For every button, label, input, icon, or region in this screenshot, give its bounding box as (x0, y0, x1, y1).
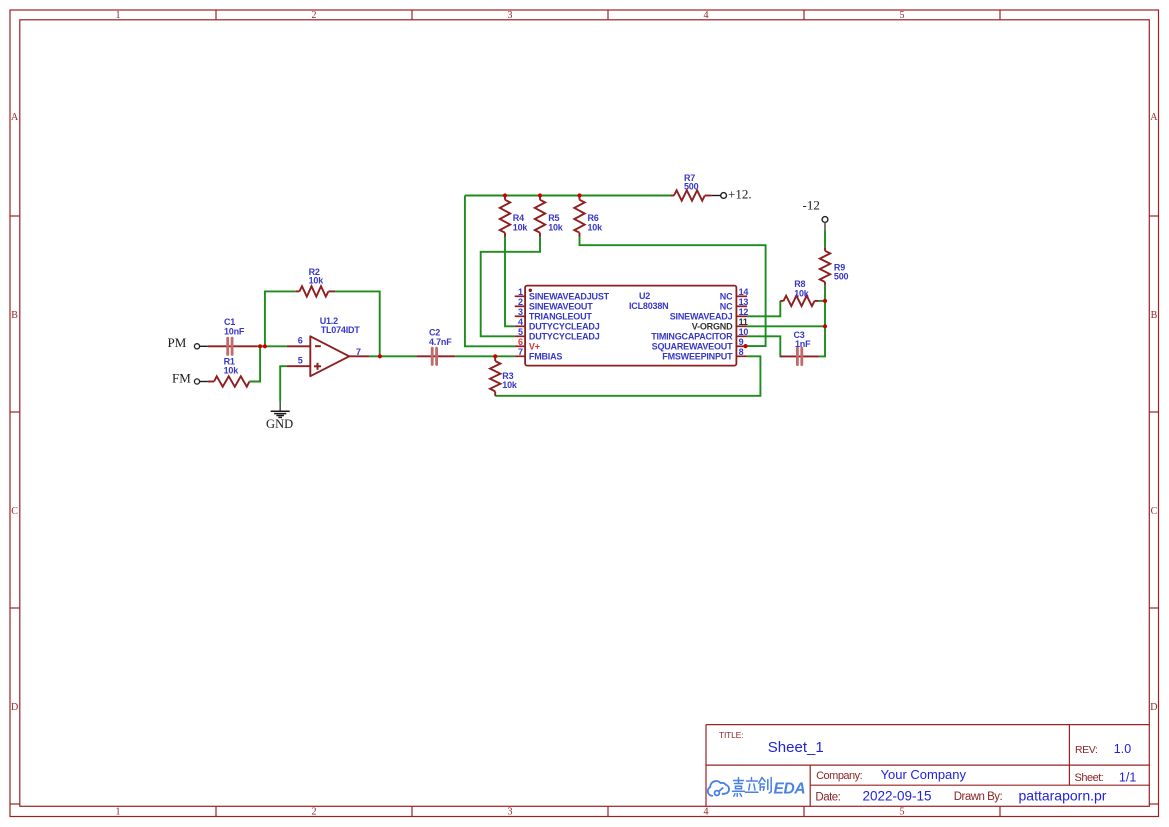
svg-text:10k: 10k (513, 223, 529, 233)
svg-text:Your Company: Your Company (881, 767, 967, 782)
svg-text:10k: 10k (548, 223, 564, 233)
svg-text:EDA: EDA (774, 781, 806, 798)
svg-text:Sheet_1: Sheet_1 (768, 739, 824, 756)
svg-text:Company:: Company: (816, 770, 863, 782)
svg-text:10k: 10k (224, 365, 240, 375)
svg-text:DUTYCYCLEADJ: DUTYCYCLEADJ (529, 332, 600, 342)
svg-text:R5: R5 (548, 213, 559, 223)
svg-text:4: 4 (704, 807, 709, 818)
svg-text:TITLE:: TITLE: (719, 730, 743, 740)
svg-text:500: 500 (834, 271, 849, 281)
svg-text:10nF: 10nF (224, 327, 245, 337)
svg-text:DUTYCYCLEADJ: DUTYCYCLEADJ (529, 322, 600, 332)
svg-text:A: A (11, 112, 19, 123)
svg-text:2022-09-15: 2022-09-15 (863, 788, 932, 803)
svg-text:1nF: 1nF (795, 339, 811, 349)
svg-text:REV:: REV: (1075, 744, 1098, 756)
svg-text:10k: 10k (309, 276, 325, 286)
svg-text:1: 1 (518, 287, 523, 297)
svg-text:7: 7 (518, 347, 523, 357)
svg-text:+12.: +12. (728, 186, 752, 201)
svg-text:D: D (11, 702, 18, 713)
svg-text:V-ORGND: V-ORGND (692, 322, 733, 332)
svg-text:SINEWAVEOUT: SINEWAVEOUT (529, 302, 593, 312)
svg-text:2: 2 (312, 807, 317, 818)
svg-text:6: 6 (298, 336, 303, 346)
svg-text:10k: 10k (502, 380, 518, 390)
svg-text:1.0: 1.0 (1114, 742, 1131, 756)
svg-text:FM: FM (172, 370, 191, 385)
svg-text:ICL8038N: ICL8038N (629, 301, 668, 311)
svg-text:B: B (1151, 310, 1158, 321)
svg-text:3: 3 (518, 307, 523, 317)
svg-text:TRIANGLEOUT: TRIANGLEOUT (529, 312, 592, 322)
svg-text:3: 3 (508, 807, 513, 818)
svg-text:1: 1 (116, 10, 121, 21)
svg-text:9: 9 (739, 337, 744, 347)
svg-text:500: 500 (684, 182, 699, 192)
svg-text:5: 5 (518, 327, 523, 337)
svg-text:Sheet:: Sheet: (1075, 772, 1104, 784)
svg-text:4: 4 (704, 10, 709, 21)
svg-text:-12: -12 (803, 197, 820, 212)
svg-text:pattaraporn.pr: pattaraporn.pr (1019, 787, 1107, 803)
svg-text:FMSWEEPINPUT: FMSWEEPINPUT (662, 352, 733, 362)
svg-text:1: 1 (116, 807, 121, 818)
svg-text:2: 2 (312, 10, 317, 21)
svg-text:5: 5 (298, 356, 303, 366)
svg-text:10k: 10k (794, 288, 810, 298)
svg-text:10k: 10k (588, 223, 604, 233)
svg-text:R4: R4 (513, 213, 524, 223)
svg-text:11: 11 (739, 317, 748, 327)
svg-text:D: D (1150, 702, 1157, 713)
svg-text:3: 3 (508, 10, 513, 21)
svg-text:SQUAREWAVEOUT: SQUAREWAVEOUT (652, 342, 733, 352)
svg-text:A: A (1150, 112, 1158, 123)
svg-text:TL074IDT: TL074IDT (321, 325, 361, 335)
svg-text:6: 6 (518, 337, 523, 347)
svg-text:5: 5 (900, 807, 905, 818)
svg-text:SINEWAVEADJ: SINEWAVEADJ (670, 312, 733, 322)
svg-text:V+: V+ (529, 342, 540, 352)
svg-text:Date:: Date: (815, 791, 840, 803)
svg-text:1/1: 1/1 (1119, 770, 1136, 784)
svg-text:B: B (11, 310, 18, 321)
svg-text:12: 12 (739, 307, 749, 317)
svg-text:FMBIAS: FMBIAS (529, 352, 562, 362)
svg-text:PM: PM (168, 335, 187, 350)
svg-text:13: 13 (739, 297, 749, 307)
svg-text:8: 8 (739, 347, 744, 357)
svg-text:4: 4 (518, 317, 523, 327)
svg-text:NC: NC (720, 302, 733, 312)
svg-text:7: 7 (356, 347, 361, 357)
svg-text:R6: R6 (588, 213, 599, 223)
svg-text:14: 14 (739, 287, 749, 297)
svg-text:NC: NC (720, 292, 733, 302)
svg-text:C: C (1151, 506, 1158, 517)
svg-text:GND: GND (266, 417, 293, 431)
svg-text:SINEWAVEADJUST: SINEWAVEADJUST (529, 292, 610, 302)
svg-text:C: C (11, 506, 18, 517)
svg-text:TIMINGCAPACITOR: TIMINGCAPACITOR (651, 332, 733, 342)
svg-text:4.7nF: 4.7nF (429, 337, 452, 347)
svg-text:U2: U2 (639, 291, 650, 301)
svg-text:5: 5 (900, 10, 905, 21)
svg-text:10: 10 (739, 327, 749, 337)
svg-text:Drawn By:: Drawn By: (954, 791, 1003, 803)
svg-text:2: 2 (518, 297, 523, 307)
